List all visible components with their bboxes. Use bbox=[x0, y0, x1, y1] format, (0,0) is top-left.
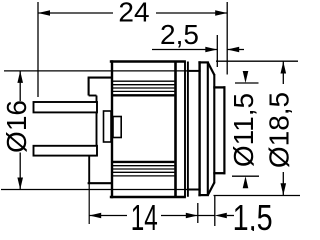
svg-text:24: 24 bbox=[118, 0, 149, 28]
svg-text:2,5: 2,5 bbox=[160, 19, 199, 50]
svg-text:Ø18,5: Ø18,5 bbox=[263, 92, 294, 168]
svg-text:Ø11,5: Ø11,5 bbox=[228, 93, 259, 167]
svg-text:1,5: 1,5 bbox=[233, 197, 273, 231]
svg-text:Ø16: Ø16 bbox=[1, 100, 32, 153]
svg-text:14: 14 bbox=[131, 197, 158, 231]
